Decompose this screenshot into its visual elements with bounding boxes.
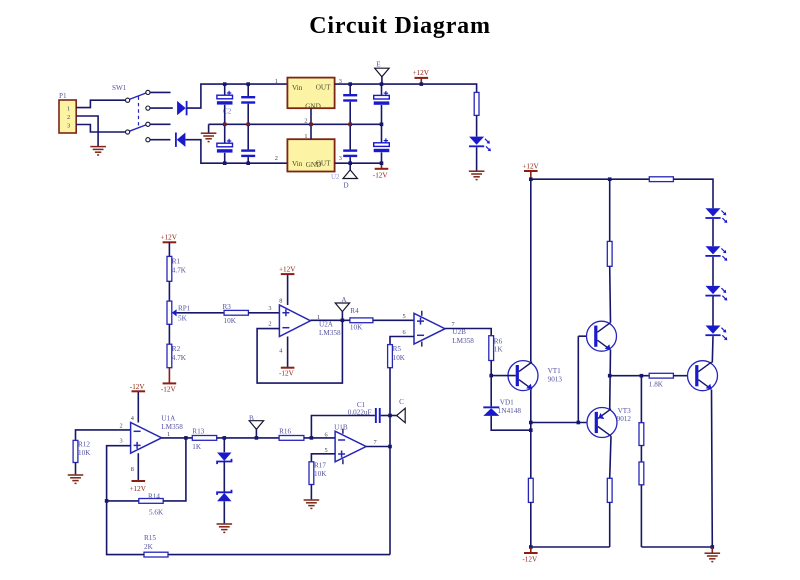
junction R6 / VT1 base / VD1 [489,374,493,378]
junction U1A output with R14 [184,436,188,440]
wire to VT3 base [531,422,595,424]
wire VT2 base [578,335,594,337]
wire U1B output [366,446,390,448]
LED 2 [705,246,727,261]
svg-text:OUT: OUT [316,84,331,92]
wire port C stem [390,415,397,417]
resistor R3 [224,310,248,315]
svg-text:10K: 10K [350,324,363,332]
wire P1 pin1 to SW1 pole A [76,100,125,107]
svg-text:-12V: -12V [373,171,389,179]
svg-text:LM358: LM358 [319,329,341,337]
svg-text:B: B [249,414,254,422]
voltage regulator 2 (-12V) [287,139,334,171]
wire divider top [640,376,642,423]
resistor R1 [167,256,172,281]
svg-text:2: 2 [120,422,123,429]
svg-text:5K: 5K [178,315,188,323]
resistor R15 [144,552,168,557]
wire U2A pin4 to -12V [287,337,289,368]
wire U2A pin8 to +12V [287,274,289,305]
wire U1A output [161,437,192,439]
junction bottom rail at ceramic [246,161,250,165]
wire regulator2 OUT rail [335,162,382,164]
capacitor (bottom electrolytic near C2) [217,139,233,153]
wire [349,157,351,163]
wire SW1 throw1 stub [150,91,171,93]
transistor (LED driver) [688,361,718,391]
wire to zener 1 [223,438,225,452]
power -12V at U1A pin4 [130,383,146,391]
svg-text:C: C [399,398,404,406]
wire ground rail right [641,546,712,548]
resistor R17 [309,462,314,485]
capacitor (output ceramic +12V) [343,94,357,102]
svg-text:1: 1 [275,78,278,85]
capacitor C1 [375,408,381,423]
wire bottom rail to regulator2 pin2 [186,140,288,164]
wire [712,297,714,326]
wire ground stem [208,124,210,132]
wire driver emitter to ground rail [711,390,714,547]
svg-text:R17: R17 [314,462,326,470]
junction mid rail at output electrolytic [380,123,384,127]
wire U1B pin5 to R17 [311,454,335,462]
wire top rail to VT2 collector resistor [609,179,611,241]
svg-text:SW1: SW1 [112,84,127,92]
wire [381,105,383,124]
wire [712,257,714,286]
wire SW1 throw4 to rectifier diode [150,139,170,141]
svg-text:2K: 2K [144,543,154,551]
junction mid rail at C2 [223,123,227,127]
svg-text:+12V: +12V [413,69,430,77]
capacitor C2 (top electrolytic) [217,91,233,105]
svg-text:4.7K: 4.7K [172,267,187,275]
svg-text:R6: R6 [494,337,503,345]
wire -12V stem [530,547,532,553]
svg-text:5.6K: 5.6K [149,509,164,517]
junction top rail at C2 [223,82,227,86]
svg-text:R13: R13 [192,428,204,436]
resistor R6 [489,336,494,361]
connector P1 [59,100,76,133]
wire [168,281,170,301]
op-amp U2B [414,313,445,344]
wire [349,102,351,125]
wire [224,153,226,163]
ground at mid rail [201,133,217,141]
wire R4 to U2B pin5 [373,319,414,321]
power +12V at U1A pin8 [130,481,147,493]
transistor VT1 [508,361,538,391]
wire RP1 wiper to R3 [177,312,225,314]
svg-text:GND: GND [305,103,321,111]
svg-text:VD1: VD1 [500,399,514,407]
power stubs of U1B [342,429,344,465]
svg-text:R12: R12 [78,441,90,449]
svg-text:A: A [341,296,347,304]
wire U1A pin4 to -12V [137,392,139,423]
wire node down to R15 loop [389,416,391,555]
wire resistor to VT2 collector [609,266,612,322]
svg-text:-12V: -12V [130,383,146,391]
junction port B [255,436,259,440]
zener diode upper [217,453,231,465]
svg-text:2: 2 [275,155,278,162]
wire [224,84,226,95]
power +12V at driver rail [522,162,539,171]
junction zener chain top [223,436,227,440]
wire regulator2 pin1 to mid rail [310,124,312,139]
power -12V at bottom rail [522,553,538,564]
wire to VD1 [490,376,492,407]
wire VT3 collector down [610,436,611,478]
wire VT2 base vertical [577,336,579,422]
svg-text:VT3: VT3 [618,407,632,415]
wire U1A pin8 to +12V [137,453,139,481]
resistor (divider upper) [639,423,644,446]
svg-text:10K: 10K [224,317,237,325]
wire emitter node to 1.8K [610,375,650,377]
wire top rail to LED chain [673,179,713,208]
svg-text:R5: R5 [393,345,402,353]
junction bottom rail at port D [348,161,352,165]
svg-text:8: 8 [131,466,134,473]
wire [349,124,351,149]
svg-text:R3: R3 [223,303,232,311]
wire top rail to regulator1 Vin [187,84,287,108]
svg-text:-12V: -12V [161,385,177,393]
port C [397,408,406,422]
wire [168,368,170,384]
power -12V at R2 [161,383,177,393]
power +12V at output rail [413,69,430,78]
svg-text:6: 6 [402,329,405,336]
wire [224,105,226,143]
svg-text:4.7K: 4.7K [172,354,187,362]
wire VD1 to VT1 emitter line [491,416,531,430]
ground at right rail [705,553,721,561]
wire -12V bottom rail [531,546,610,548]
wire U2A output [310,319,350,321]
junction C1 right [388,414,392,418]
ground at zeners [217,524,233,532]
wire U1A pin2 to R12 [76,430,131,441]
resistor (divider lower) [639,462,644,485]
wire [247,104,249,150]
junction U1B output [388,445,392,449]
resistor R2 [167,344,172,368]
wire VT2 emitter to VT3 emitter [609,350,612,409]
svg-text:+12V: +12V [161,234,178,242]
svg-text:9013: 9013 [548,376,563,384]
wire U1A pin3 down [107,446,131,501]
junction emitter line / VD1 [529,428,533,432]
svg-text:U2A: U2A [319,320,334,328]
junction 1.8K / divider [640,374,644,378]
resistor R12 [73,440,78,462]
capacitor (output electrolytic -12V) [374,138,390,152]
svg-text:U2: U2 [331,173,340,181]
wire VT1 emitter down [530,390,532,479]
svg-text:2: 2 [268,320,271,327]
svg-text:3: 3 [120,438,123,445]
wire ground stem [711,547,713,553]
junction top rail at +12V [529,177,533,181]
wire [381,84,383,95]
junction top rail at VT2 branch [608,177,612,181]
wire [349,84,351,94]
wire SW1 throw3 stub [150,123,171,125]
wire LED chain to driver transistor collector [711,336,714,363]
junction top rail at D-cap [348,82,352,86]
wire port E stem [381,77,383,84]
svg-text:Vin: Vin [292,160,303,168]
svg-text:5: 5 [325,447,328,454]
svg-text:10K: 10K [314,470,327,478]
svg-text:Circuit Diagram: Circuit Diagram [309,13,491,39]
svg-text:9012: 9012 [617,415,632,423]
svg-text:R16: R16 [279,428,291,436]
junction emitter line / base wire [529,421,533,425]
wire [381,124,383,143]
junction -12V rail [529,545,533,549]
wire [381,152,383,163]
junction U1B pin6 / C1 [310,436,314,440]
svg-text:R14: R14 [148,492,160,500]
wire to capacitor C1 [311,416,375,438]
wire R15 loop left up to pin3 node [107,501,144,555]
svg-text:1.8K: 1.8K [649,380,664,388]
ground at P1 [90,147,106,155]
junction emitter node / 1.8K [608,374,612,378]
wire R14 to U1A output [163,438,186,501]
wire -12V stem [381,163,383,168]
diode VD1 [483,406,499,416]
potentiometer RP1 [167,301,177,324]
switch SW1 [126,90,150,141]
wire [247,157,249,163]
wire U2B pin6 to R5 [390,337,414,345]
op-amp U2A [279,305,310,337]
svg-text:RP1: RP1 [178,305,191,313]
op-amp U1B [335,431,366,462]
wire [476,147,478,170]
port D [343,170,357,179]
capacitor (bottom ceramic filter) [241,149,255,157]
svg-text:-12V: -12V [279,370,295,378]
junction U2A output [341,319,345,323]
svg-text:2: 2 [304,117,307,124]
LED 3 [705,286,727,301]
svg-text:0.022uF: 0.022uF [348,408,372,416]
svg-text:+12V: +12V [130,485,147,493]
wire +12V rail down to VT1 collector [530,179,532,362]
svg-text:3: 3 [268,305,271,312]
ground at R12 [68,475,84,483]
svg-text:R2: R2 [172,345,181,353]
junction VT2 base branch [577,421,581,425]
power +12V at R1 [161,234,178,243]
capacitor (output ceramic -12V) [343,149,357,157]
wire regulator1 GND pin to mid rail [310,108,312,124]
power -12V at U2A pin4 [279,368,295,378]
wire [168,324,170,344]
transistor VT2 [587,321,617,351]
wire port A stem [341,312,343,321]
wire port B stem [255,429,257,438]
wire SW1 throw2 to rectifier diode [150,107,173,109]
wire between zeners [223,462,225,493]
svg-text:1N4148: 1N4148 [498,407,522,415]
wire between divider resistors [640,446,642,463]
junction R14 left [105,499,109,503]
svg-text:+12V: +12V [279,265,296,273]
svg-text:3: 3 [339,155,342,162]
svg-text:D: D [343,182,348,190]
wire [530,502,532,547]
wire +12V stem [530,171,532,179]
junction ground rail [711,545,715,549]
svg-text:6: 6 [325,432,328,439]
capacitor (output electrolytic +12V) [374,91,390,105]
svg-text:P1: P1 [59,92,67,100]
resistor R14 [139,499,163,504]
svg-text:7: 7 [452,321,455,328]
svg-text:3: 3 [67,123,70,130]
svg-text:VT1: VT1 [548,367,562,375]
resistor (VT1 emitter load) [528,478,533,502]
diode rectifier top [177,101,187,115]
junction bottom rail at C2 [223,161,227,165]
capacitor (top ceramic filter) [241,96,255,104]
ground at R17 [304,500,320,508]
wire [310,485,312,500]
wire U2A feedback pin2 loop [257,320,342,383]
svg-text:1: 1 [67,106,70,113]
svg-text:E: E [376,61,381,69]
power +12V at U2A pin8 [279,265,296,274]
wire [609,502,611,547]
wire P1 pin2 to ground [76,116,98,146]
diode rectifier bottom [175,133,185,147]
wire R3 to U2A pin3 [248,312,279,314]
wire top driver rail left part [531,178,650,180]
svg-text:R4: R4 [350,307,359,315]
junction bottom rail at -12V [380,161,384,165]
svg-text:U1A: U1A [161,415,176,423]
wire 1.8K to output transistor base [673,375,695,377]
junction mid rail at ceramic [246,123,250,127]
LED power indicator [469,137,491,152]
power stubs of U2B [421,311,423,347]
svg-text:10K: 10K [393,354,406,362]
wire regulator1 OUT rail to indicator branch [335,84,477,92]
port A [335,303,349,312]
ground at indicator LED [469,171,485,179]
svg-text:7: 7 [374,439,377,446]
port B [249,421,263,430]
svg-text:1: 1 [304,133,307,140]
svg-text:GND: GND [306,161,322,169]
wire R6 node to VT1 base [491,375,516,377]
wire [476,115,478,136]
resistor 1.8K [649,373,673,378]
wire R13 to R16 (node B) [217,437,279,439]
svg-text:LM358: LM358 [161,423,183,431]
wire zener to ground [223,501,225,523]
svg-text:U1B: U1B [334,423,348,431]
svg-text:R1: R1 [172,258,181,266]
svg-text:Vin: Vin [292,84,303,92]
resistor R16 [279,436,304,441]
junction top rail at port E [380,82,384,86]
svg-text:1K: 1K [192,443,202,451]
zener diode lower [217,490,231,502]
junction mid rail at output cap [348,123,352,127]
wire R5 to C1 node [389,368,391,416]
wire +12V stem [420,78,422,84]
junction top rail at +12V [420,82,424,86]
resistor (VT2 collector) [607,241,612,266]
port E [375,68,389,77]
op-amp U1A [131,423,162,454]
svg-text:1K: 1K [494,346,504,354]
wire U2B output to R6 [445,329,491,336]
svg-text:R15: R15 [144,534,156,542]
wire R15 loop bottom [168,554,390,556]
power -12V at output rail [373,169,389,180]
wire [168,242,170,256]
svg-text:8: 8 [279,297,282,304]
svg-text:-12V: -12V [522,556,538,564]
junction mid rail at regulators [309,123,313,127]
resistor (LED chain series) [649,177,673,182]
resistor (LED indicator series) [474,92,479,115]
junction top rail at ceramic [246,82,250,86]
LED 1 [705,208,727,223]
wire P1 pin3 to SW1 pole B [76,125,125,133]
wire divider bottom [640,485,642,547]
svg-text:LM358: LM358 [452,337,474,345]
wire mid (common) rail [209,123,382,125]
resistor R13 [192,436,216,441]
svg-text:+12V: +12V [522,162,539,170]
resistor (VT3 collector load) [607,478,612,502]
svg-text:2: 2 [67,114,70,121]
resistor R4 [350,318,373,323]
wire [490,361,492,376]
svg-text:10K: 10K [78,449,91,457]
voltage regulator 1 (+12V) [287,78,334,109]
wire [247,84,249,96]
wire R16 to U1B pin6 [304,437,335,439]
transistor VT3 [587,408,617,438]
wire C1 to node [381,415,390,417]
LED 4 [705,326,727,341]
wire [712,219,714,246]
wire [75,463,77,475]
wire [107,500,139,502]
resistor R5 [388,345,393,368]
wire port D stem [349,163,351,170]
svg-text:5: 5 [402,313,405,320]
